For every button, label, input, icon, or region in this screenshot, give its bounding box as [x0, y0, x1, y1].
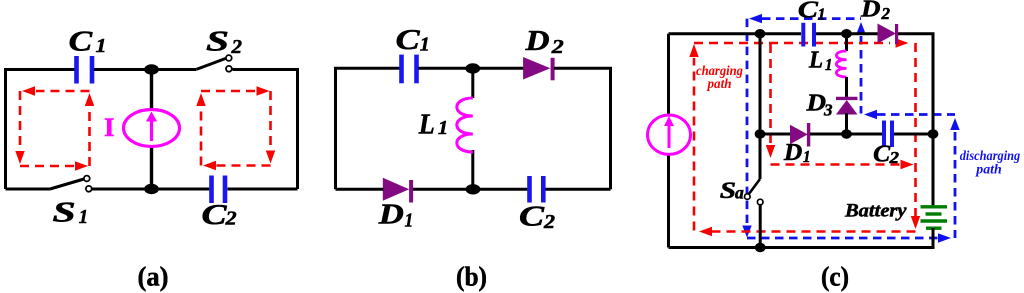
svg-text:1: 1 — [438, 117, 448, 139]
label C2 (a) — [202, 200, 237, 231]
svg-text:S: S — [53, 198, 76, 229]
switch Sa lever — [749, 179, 761, 195]
red dashed current loop left (a) — [20, 91, 90, 166]
svg-text:path: path — [975, 163, 1002, 178]
svg-text:1: 1 — [803, 147, 811, 166]
arrowheads red charging path (c) — [689, 38, 920, 236]
svg-text:(b): (b) — [456, 262, 487, 292]
wire (a) S2 to top-right corner + right side — [233, 70, 298, 190]
switch S2 lever — [196, 59, 226, 70]
svg-text:C: C — [69, 27, 93, 58]
wire (a) C2 to S1 fixed contact — [92, 188, 209, 191]
svg-text:D: D — [860, 0, 881, 23]
svg-text:1: 1 — [818, 5, 826, 24]
svg-text:path: path — [707, 77, 732, 92]
capacitor C1 plates (b) — [402, 55, 417, 84]
svg-text:1: 1 — [96, 35, 107, 57]
switch S1 lever — [50, 179, 84, 189]
label S1 (a) — [53, 198, 89, 229]
battery (c) — [921, 207, 948, 228]
inductor L1 coil (b) — [457, 98, 473, 152]
label S2 (a) — [206, 26, 242, 58]
wire (c) D3 to centre node — [845, 113, 848, 134]
label D2 (c) — [860, 0, 891, 23]
node bottom centre (b) — [466, 184, 481, 194]
diode D3 (c) triangle — [836, 100, 858, 115]
svg-text:2: 2 — [543, 211, 555, 233]
node (c) middle left — [755, 129, 766, 138]
wire (c) L1 to D3 — [845, 77, 848, 97]
wire (c) D2 to top-right corner, right side to battery — [898, 34, 933, 207]
wire (b) C2 to D1 — [413, 188, 528, 191]
node (c) bottom — [755, 243, 766, 252]
switch S1 contact circles — [84, 176, 90, 182]
current source (c) — [648, 115, 691, 154]
label D3 (c) — [805, 90, 833, 119]
label Sa (c) — [720, 178, 744, 203]
arrowheads blue discharging path (c) — [742, 14, 959, 243]
node top centre (a) — [144, 64, 159, 74]
svg-text:C: C — [519, 201, 544, 232]
wire (a) top middle C1 to switch S2 pivot — [94, 68, 196, 71]
capacitor C2 plates (b) — [530, 176, 544, 203]
svg-text:D: D — [805, 90, 826, 116]
svg-text:2: 2 — [881, 4, 891, 23]
svg-text:D: D — [783, 140, 802, 166]
blue dashed discharging path (c) — [747, 19, 955, 238]
node bottom centre (a) — [144, 184, 159, 194]
arrowheads red loop right (a) — [196, 86, 275, 170]
wire (a) bottom right corner to C2 — [228, 188, 298, 191]
svg-text:Battery: Battery — [844, 200, 907, 221]
capacitor C1 plates (a) — [77, 56, 93, 84]
svg-text:I: I — [104, 113, 115, 142]
wire (c) centre node to C2 — [847, 133, 883, 136]
wire (c) outer left side — [667, 34, 670, 248]
wire (c) C2 to right node — [894, 133, 933, 136]
svg-text:1: 1 — [79, 206, 89, 228]
red dashed current loop right (a) — [201, 91, 271, 166]
svg-text:S: S — [720, 178, 736, 203]
node (c) middle centre — [841, 129, 852, 138]
wire (b) D1 to bottom-left corner — [336, 188, 384, 191]
label C2 (b) — [519, 201, 555, 233]
wire (c) top from left corner to C1 — [669, 32, 802, 35]
diode D1 (b) — [383, 178, 409, 201]
svg-text:1: 1 — [825, 55, 833, 74]
diode D3 (c) cathode bar — [836, 97, 858, 100]
label C1 (c) — [798, 0, 826, 24]
label D1 (b) — [378, 200, 414, 232]
wire (b) bottom right corner to C2 — [546, 188, 611, 191]
svg-text:S: S — [206, 26, 229, 57]
svg-text:1: 1 — [405, 210, 414, 232]
svg-text:(c): (c) — [821, 262, 849, 292]
svg-text:D: D — [378, 200, 404, 231]
wire (a) left side + top-left to C1 — [6, 70, 75, 190]
label L1 (c) — [808, 48, 832, 75]
wire (b) C1 to D2 — [419, 67, 525, 70]
label D1 (c) — [783, 140, 811, 166]
svg-text:D: D — [524, 26, 549, 57]
wire (a) middle vertical through current source — [150, 70, 153, 190]
svg-text:L: L — [808, 48, 823, 74]
svg-text:C: C — [798, 0, 819, 24]
label C1 (b) — [396, 25, 430, 56]
label L1 (b) — [418, 109, 448, 140]
wire (c) battery to bottom-right corner and bottom side — [669, 228, 934, 248]
svg-text:L: L — [418, 109, 435, 140]
svg-text:2: 2 — [888, 148, 899, 167]
svg-text:C: C — [202, 200, 227, 231]
node (c) top L1 — [841, 29, 852, 38]
svg-text:1: 1 — [420, 34, 430, 56]
svg-text:C: C — [396, 25, 420, 56]
inductor L1 coil (c) — [836, 51, 846, 77]
wire (c) middle row: node to D1 — [760, 133, 791, 136]
label C1 (a) — [69, 27, 107, 58]
svg-text:a: a — [735, 183, 744, 203]
wire (c) D1 to centre node — [810, 133, 847, 136]
diode D2 (c) — [878, 24, 897, 44]
diode D1 (c) — [790, 125, 808, 145]
capacitor C2 plates (c) — [884, 121, 892, 148]
svg-text:2: 2 — [551, 36, 564, 58]
switch Sa contact circles — [745, 194, 751, 200]
switch S2 contact circles — [226, 55, 232, 61]
capacitor C2 plates (a) — [212, 176, 226, 204]
wire (c) switch to bottom node — [759, 205, 762, 248]
wire (b) D2 to top-right + right side — [554, 68, 611, 189]
svg-text:(a): (a) — [138, 262, 169, 292]
current source I (a) — [124, 110, 180, 147]
svg-text:2: 2 — [225, 208, 237, 230]
wire (c) C1 to D2 — [816, 32, 879, 35]
node (c) middle right — [928, 129, 939, 138]
red dashed charging path (c) — [694, 43, 916, 232]
label C2 (c) — [873, 142, 899, 168]
label D2 (b) — [524, 26, 563, 58]
arrowheads red loop left (a) — [15, 86, 94, 170]
wire (b) centre vertical with inductor gap — [471, 69, 474, 98]
svg-text:3: 3 — [823, 101, 833, 120]
svg-text:2: 2 — [230, 36, 242, 58]
wire (c) L1 branch from top node — [845, 34, 848, 51]
wire (a) bottom-left corner to S1 pivot — [6, 188, 51, 191]
wire (b) left side + top-left to C1 — [336, 68, 400, 189]
wire (c) inner vertical from top node down to switch — [759, 34, 762, 179]
diode D2 (b) — [523, 57, 550, 80]
node (c) top branch — [755, 29, 766, 38]
node top centre (b) — [465, 63, 480, 73]
capacitor C1 plates (c) — [803, 23, 814, 47]
